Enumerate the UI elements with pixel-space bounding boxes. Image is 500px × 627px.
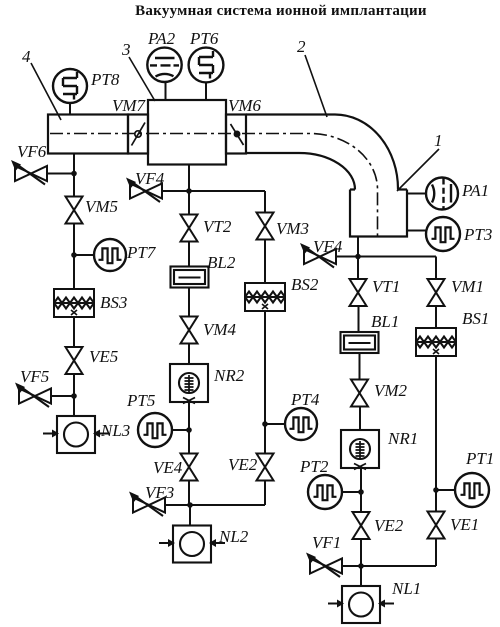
svg-text:BL2: BL2	[207, 253, 236, 272]
svg-text:NR2: NR2	[213, 366, 245, 385]
svg-text:VM6: VM6	[228, 96, 262, 115]
svg-text:VF6: VF6	[17, 142, 47, 161]
svg-text:PA1: PA1	[461, 181, 489, 200]
svg-text:VF5: VF5	[20, 367, 49, 386]
svg-text:NR1: NR1	[387, 429, 418, 448]
svg-text:NL3: NL3	[100, 421, 130, 440]
svg-text:BL1: BL1	[371, 312, 399, 331]
svg-text:NL1: NL1	[391, 579, 421, 598]
svg-text:BS2: BS2	[291, 275, 319, 294]
svg-text:PT4: PT4	[290, 390, 320, 409]
svg-text:PT2: PT2	[299, 457, 329, 476]
svg-text:PT7: PT7	[126, 243, 157, 262]
svg-text:VT2: VT2	[203, 217, 232, 236]
svg-text:PT5: PT5	[126, 391, 155, 410]
svg-text:BS3: BS3	[100, 293, 127, 312]
svg-text:VM1: VM1	[451, 277, 484, 296]
svg-text:VM2: VM2	[374, 381, 408, 400]
svg-text:PA2: PA2	[147, 29, 176, 48]
svg-text:PT8: PT8	[90, 70, 120, 89]
svg-text:VE1: VE1	[450, 515, 479, 534]
svg-text:BS1: BS1	[462, 309, 489, 328]
svg-text:VF4: VF4	[135, 169, 165, 188]
svg-text:VM5: VM5	[85, 197, 118, 216]
svg-text:VT1: VT1	[372, 277, 400, 296]
svg-text:4: 4	[22, 47, 31, 66]
svg-text:VM7: VM7	[112, 96, 147, 115]
svg-text:PT1: PT1	[465, 449, 494, 468]
svg-text:VE2: VE2	[374, 516, 404, 535]
svg-text:2: 2	[297, 37, 306, 56]
svg-text:PT6: PT6	[189, 29, 219, 48]
svg-text:NL2: NL2	[218, 527, 249, 546]
svg-text:VF4: VF4	[313, 237, 343, 256]
svg-text:1: 1	[434, 131, 443, 150]
svg-text:VE5: VE5	[89, 347, 118, 366]
svg-text:PT3: PT3	[463, 225, 492, 244]
svg-text:VE4: VE4	[153, 458, 183, 477]
svg-text:3: 3	[121, 40, 131, 59]
svg-text:VM3: VM3	[276, 219, 309, 238]
svg-text:VE2: VE2	[228, 455, 258, 474]
svg-text:Вакуумная система ионной импла: Вакуумная система ионной имплантации	[135, 3, 427, 19]
svg-text:VF3: VF3	[145, 483, 174, 502]
svg-text:VF1: VF1	[312, 533, 341, 552]
svg-text:VM4: VM4	[203, 320, 237, 339]
